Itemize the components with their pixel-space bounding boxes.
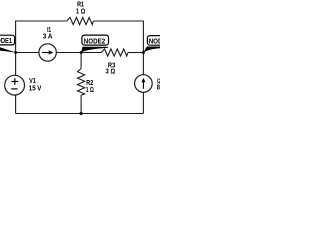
wire left mid: [15, 53, 17, 76]
wire right mid: [142, 53, 144, 75]
junction dot bottom: [80, 112, 83, 115]
node NODE2 callout: [81, 35, 108, 52]
svg-text:NODE2: NODE2: [84, 36, 105, 45]
wire R2 top lead: [80, 53, 82, 69]
svg-text:NODE3: NODE3: [149, 36, 160, 45]
node NODE1 callout: [0, 35, 16, 52]
svg-text:NODE1: NODE1: [0, 36, 12, 45]
svg-text:8 A: 8 A: [157, 85, 160, 92]
wire R2 bottom lead: [80, 95, 82, 113]
wire right bottom: [142, 92, 144, 113]
resistor R3: [101, 49, 128, 56]
svg-text:V1: V1: [29, 78, 36, 85]
wire top rail right: [93, 21, 143, 53]
svg-text:3 Ω: 3 Ω: [106, 69, 116, 76]
resistor R2: [78, 69, 85, 96]
current source I2: [135, 75, 153, 93]
resistor R1: [67, 17, 94, 24]
wire left bottom: [15, 95, 17, 113]
svg-text:R2: R2: [86, 80, 93, 87]
wire bottom rail: [16, 113, 144, 115]
svg-text:1 Ω: 1 Ω: [76, 8, 86, 15]
node B junction dot: [80, 51, 83, 54]
current source I1: [39, 44, 56, 61]
node A junction dot: [14, 51, 17, 54]
svg-text:1 Ω: 1 Ω: [86, 87, 94, 94]
svg-text:3 A: 3 A: [43, 33, 53, 40]
svg-text:15 V: 15 V: [29, 85, 42, 92]
wire middle I1 to node2: [56, 52, 101, 54]
node C junction dot: [142, 51, 145, 54]
voltage source V1: [5, 75, 25, 95]
node NODE3 callout: [143, 36, 173, 53]
wire top rail left: [16, 21, 67, 53]
wire middle to node3: [128, 52, 143, 54]
wire middle left: [16, 52, 39, 54]
